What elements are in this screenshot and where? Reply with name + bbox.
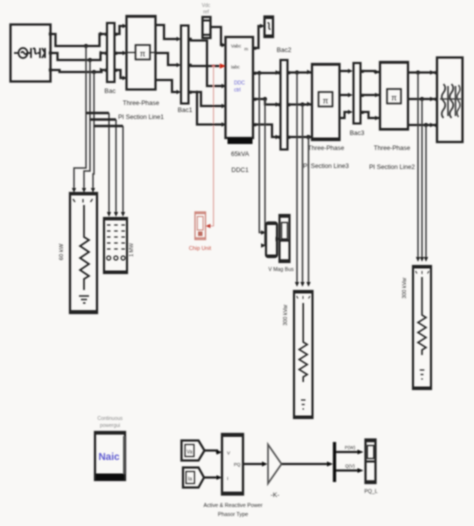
node tap down A [295, 70, 299, 74]
wire phase C source to B1 [52, 70, 105, 72]
wire phase A source to B1 [52, 34, 105, 46]
svg-text:60 kW: 60 kW [59, 243, 65, 260]
wire B1 to PI line1 phase B [117, 52, 123, 54]
wire PI line1 to Bac1 phase B [156, 53, 177, 65]
svg-text:powergui: powergui [100, 423, 120, 429]
svg-text:Ia: Ia [188, 477, 192, 483]
From tag Iabc [183, 468, 204, 488]
svg-text:π: π [323, 97, 329, 106]
arrowhead into Bac2 C [276, 135, 281, 139]
wire PI line1 to Bac1 phase A [156, 25, 177, 39]
wire PI line3 to Bac3 phase B [340, 94, 350, 96]
arrowhead into Bac2 B [276, 102, 281, 106]
load 300 kVar block right [402, 266, 431, 389]
svg-text:π: π [391, 94, 397, 103]
node tap down C [306, 135, 310, 139]
three-phase source block [11, 25, 52, 82]
wire PI line3 to Bac3 phase A [340, 70, 350, 72]
wire drop phase C to 300kvar load [308, 137, 310, 283]
svg-text:Bac3: Bac3 [350, 130, 365, 137]
wire branch to controller input 5 [197, 92, 222, 125]
load 60 kW block [59, 193, 97, 313]
wire demux to display Q [336, 469, 359, 471]
arrowhead into PI2 B [375, 93, 380, 97]
wire drop phase C to loads left [93, 72, 123, 189]
svg-text:PQ: PQ [234, 462, 241, 467]
svg-text:Active & Reactive Power: Active & Reactive Power [203, 503, 262, 509]
svg-text:Q(V): Q(V) [345, 464, 355, 469]
svg-text:Chip Unit: Chip Unit [189, 246, 212, 252]
svg-text:Bac2: Bac2 [277, 47, 292, 54]
svg-text:300 kVar: 300 kVar [283, 304, 289, 325]
red wire down to Chip Unit [209, 66, 214, 226]
wire Bac2 to PI line3 phase B [290, 103, 313, 105]
svg-text:PQ_L: PQ_L [364, 489, 377, 495]
load 300 kVar block middle [283, 291, 313, 418]
svg-text:π: π [140, 50, 146, 59]
svg-text:m: m [244, 47, 248, 52]
wire Bac3 to PI line2 phase C [364, 112, 381, 118]
wire Bac3 to PI line2 phase A [364, 71, 381, 72]
node tap to V measure 2 [263, 97, 267, 101]
wire controller to Bac2 phase C [256, 125, 281, 138]
svg-text:-K-: -K- [271, 492, 280, 499]
svg-text:Bac: Bac [104, 88, 116, 95]
Three-Phase PI Section Line3 [303, 64, 349, 170]
three-phase load block right [435, 58, 463, 143]
arrowhead into PI2 A [375, 70, 380, 74]
svg-text:65kVA: 65kVA [231, 151, 250, 158]
node tap down B [300, 102, 304, 106]
arrowhead into PI2 C [375, 116, 380, 120]
controller block 65kVA DDC1 [226, 37, 257, 174]
svg-text:300 kVar: 300 kVar [402, 277, 408, 298]
wire controller to Bac2 phase B [256, 99, 281, 105]
wire PI line1 to Bac1 phase C [156, 80, 177, 92]
measurement block Bac3 [350, 63, 365, 137]
wire A to B [277, 238, 278, 240]
svg-text:Continuous: Continuous [97, 416, 123, 422]
node phase C tap [92, 70, 96, 74]
gain -K- triangle [268, 445, 282, 500]
svg-text:Three-Phase: Three-Phase [308, 145, 345, 152]
wire phase B source to B1 [52, 53, 105, 60]
display block PQ [364, 440, 377, 496]
Chip Unit red block [189, 212, 212, 252]
arrowhead into load C [430, 123, 435, 127]
svg-text:Three-Phase: Three-Phase [123, 100, 160, 107]
three-phase RLC load small block [104, 218, 135, 273]
arrowhead into Bac2 A [276, 70, 281, 74]
arrowhead into B1 C [100, 68, 105, 72]
svg-text:Vabc: Vabc [231, 44, 242, 49]
svg-text:DDC: DDC [234, 81, 245, 87]
powergui block [95, 416, 125, 480]
wire PI line2 to load phase A [408, 71, 437, 73]
arrowhead into load B [430, 97, 435, 101]
wire Bac1 phase C to controller inputs 4 and 5 [191, 92, 222, 106]
scope block [265, 17, 274, 38]
svg-text:PI Section Line3: PI Section Line3 [303, 163, 349, 170]
node red tap [212, 65, 215, 68]
Active and Reactive Power block [203, 434, 262, 518]
wire B1 to PI line1 phase C [117, 70, 123, 78]
measurement block B1 (Bac) [104, 23, 117, 95]
svg-text:Three-Phase: Three-Phase [374, 145, 411, 152]
wire drop phase A to loads left [74, 46, 109, 189]
svg-text:Bac1: Bac1 [178, 107, 193, 114]
measurement block Bac2 [277, 47, 292, 150]
node tap right A [416, 70, 420, 74]
svg-text:V Mag Bus: V Mag Bus [268, 267, 294, 273]
arrowhead into PI3 C [307, 135, 312, 139]
measurement block Bac1 [178, 26, 193, 115]
wire PI line2 to load phase B [408, 98, 437, 100]
arrowhead into load A [430, 70, 435, 74]
svg-text:DDC1: DDC1 [231, 167, 249, 174]
wire controller to Bac2 phase A [256, 72, 281, 74]
wire drop right phase B to 300kvar load1 [421, 99, 423, 258]
wire B1 to PI line1 phase A [117, 26, 123, 34]
svg-text:V: V [227, 451, 231, 456]
svg-text:PI Section Line1: PI Section Line1 [118, 114, 164, 121]
svg-text:I: I [227, 476, 228, 481]
wire power block to gain [243, 463, 263, 465]
From tag Vabc [182, 441, 205, 461]
wire demux to display P [336, 451, 359, 453]
svg-text:Naic: Naic [98, 452, 120, 463]
wire gain to demux [282, 463, 329, 465]
svg-text:Va: Va [187, 450, 193, 456]
svg-text:P(W): P(W) [345, 445, 356, 450]
arrowhead into PI3 B [307, 102, 312, 106]
wire drop to V measure input 2 [264, 99, 266, 246]
svg-text:Iabc: Iabc [231, 65, 240, 70]
arrowhead into B1 A [100, 32, 105, 36]
wire drop right phase A to 300kvar load1 [417, 73, 419, 259]
svg-text:ref: ref [203, 10, 209, 16]
node tap right C [424, 123, 428, 127]
node tap to V measure 1 [257, 71, 261, 75]
Three-Phase PI Section Line2 [369, 62, 415, 171]
wire PI line2 to load phase C [408, 124, 437, 126]
wire From Vabc to power block [205, 451, 218, 453]
wire Bac2 to PI line3 phase C [290, 136, 313, 138]
wire drop phase A to 300kvar load [296, 73, 298, 284]
arrowhead into PI3 A [307, 70, 312, 74]
wire From Iabc to power block [204, 476, 218, 478]
Three-Phase PI Section Line1 [118, 16, 164, 121]
wire Bac3 to PI line2 phase B [364, 94, 381, 96]
arrowhead into B1 B [100, 51, 105, 55]
wire Bac2 to PI line3 phase A [290, 71, 313, 73]
V measure block A [266, 223, 277, 258]
thick jog bars left load feed [86, 112, 109, 115]
svg-text:PI Section Line2: PI Section Line2 [369, 164, 415, 171]
wire Bac1 phase A to controller input 3 [191, 39, 222, 86]
node phase A tap [84, 44, 88, 48]
wire Bac1 phase B to controller red input [191, 65, 220, 66]
wire controller m output to scope [256, 26, 261, 48]
wire signal block to controller Vabc input [211, 27, 223, 45]
svg-text:ctrl: ctrl [234, 88, 241, 94]
signal source block (Vdc ref) [202, 3, 211, 38]
wire drop right phase C to 300kvar load1 [425, 125, 427, 258]
svg-text:Phasor Type: Phasor Type [218, 512, 248, 518]
wire drop to V measure input 1 [259, 73, 261, 233]
wire PI line3 to Bac3 phase C [340, 112, 350, 118]
svg-text:1 MW: 1 MW [129, 243, 135, 257]
wire drop phase B to loads left [84, 60, 116, 189]
node phase B tap [88, 58, 92, 62]
V Mag Bus display block B [268, 215, 294, 273]
wire drop phase B to 300kvar load [302, 105, 304, 284]
node tap right B [420, 97, 424, 101]
demux bar [333, 442, 336, 482]
svg-text:Vdc: Vdc [202, 3, 211, 9]
